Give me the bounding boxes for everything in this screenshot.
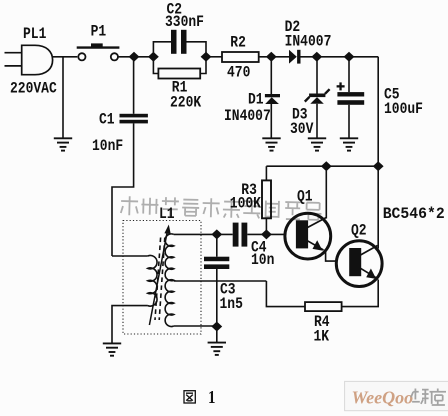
wire secondary top terminal xyxy=(174,233,217,235)
wire Q2 emitter down to R4 xyxy=(342,280,379,307)
switch P1 xyxy=(77,43,120,60)
ground (primary) xyxy=(103,343,121,355)
svg-text:1: 1 xyxy=(208,387,215,408)
capacitor C3 xyxy=(216,234,218,256)
svg-text:D1: D1 xyxy=(248,91,264,108)
label D2 xyxy=(285,19,301,36)
node H junction (Q1 collector feed) xyxy=(321,161,332,171)
svg-text:Q2: Q2 xyxy=(351,223,367,240)
resistor R1 (parallel with C2) xyxy=(153,57,206,74)
resistor R2 xyxy=(222,52,259,62)
svg-text:IN4007: IN4007 xyxy=(224,108,271,125)
resistor R4 xyxy=(305,302,342,311)
ground (D3) xyxy=(308,138,326,150)
node C junction (right of C2/R1) xyxy=(201,52,212,62)
svg-text:IN4007: IN4007 xyxy=(285,34,332,51)
node E junction xyxy=(311,52,322,62)
ground (C5) xyxy=(340,138,358,150)
wire switch to node A xyxy=(118,56,153,58)
label R3 xyxy=(241,182,257,199)
wire right side down from top rail xyxy=(377,57,379,249)
label 100K xyxy=(230,196,262,213)
wire plug to switch xyxy=(53,56,78,58)
wire C1 down to transformer primary xyxy=(112,123,134,256)
wire secondary bottom terminal xyxy=(174,325,217,327)
svg-text:470: 470 xyxy=(227,65,250,82)
svg-text:P1: P1 xyxy=(91,23,107,40)
node I junction (C3 top / C4 left) xyxy=(211,229,222,239)
label P1 xyxy=(91,23,107,40)
label R2 xyxy=(230,35,246,52)
svg-text:100uF: 100uF xyxy=(384,101,423,118)
svg-text:WeeQoo: WeeQoo xyxy=(352,388,414,408)
capacitor C5 xyxy=(348,57,350,92)
node D junction xyxy=(266,52,277,62)
label 30V xyxy=(290,121,314,138)
ground (plug) xyxy=(54,138,72,150)
label PL1 xyxy=(23,26,46,43)
caption 图 1 xyxy=(184,391,195,403)
label IN4007 (D1) xyxy=(224,108,271,125)
label D1 xyxy=(248,91,264,108)
node A junction xyxy=(129,52,140,62)
resistor R3 xyxy=(265,166,267,180)
wire node C to R2 xyxy=(206,56,222,58)
label 10nF xyxy=(92,138,123,155)
svg-text:1K: 1K xyxy=(314,328,330,345)
label L1 xyxy=(159,206,175,223)
plus sign (C5 polarity) xyxy=(337,82,345,90)
transistor Q1 xyxy=(285,213,331,259)
label IN4007 (D2) xyxy=(285,34,332,51)
svg-text:220K: 220K xyxy=(170,95,202,112)
transformer core dashed lines xyxy=(155,238,165,321)
label 100uF xyxy=(384,101,423,118)
svg-text:C1: C1 xyxy=(99,111,115,128)
label C4 xyxy=(251,239,267,256)
wire lower rail xyxy=(266,165,378,167)
wire secondary center tap xyxy=(174,280,267,282)
label R1 xyxy=(172,79,188,96)
svg-text:220VAC: 220VAC xyxy=(10,80,57,97)
dotted box L1 xyxy=(123,221,201,335)
label D3 xyxy=(292,107,308,124)
transformer secondary winding xyxy=(165,234,174,327)
wire node K to Q1 base xyxy=(266,233,285,235)
capacitor C1 xyxy=(120,114,148,124)
svg-text:L1: L1 xyxy=(159,206,175,223)
wire D2 to node E xyxy=(301,56,317,58)
svg-text:100K: 100K xyxy=(230,196,262,213)
label 1n5 xyxy=(220,296,243,313)
label 220K xyxy=(170,95,202,112)
node F junction xyxy=(344,52,355,62)
wire center tap down to R4 left xyxy=(266,281,305,307)
label 220VAC xyxy=(10,80,57,97)
svg-text:1n5: 1n5 xyxy=(220,296,243,313)
label C5 xyxy=(384,86,400,103)
node K junction (Q1 base / R3 bottom) xyxy=(261,229,272,239)
capacitor C4 xyxy=(217,233,233,235)
label R4 xyxy=(314,314,330,331)
svg-text:30V: 30V xyxy=(290,121,314,138)
label 1K xyxy=(314,328,330,345)
svg-text:330nF: 330nF xyxy=(165,14,204,31)
label BC546*2 xyxy=(383,206,445,223)
label C3 xyxy=(220,282,236,299)
node G junction (right rail) xyxy=(373,161,384,171)
label 470 xyxy=(227,65,250,82)
zener D3 xyxy=(316,57,318,94)
wire node F to right corner xyxy=(349,56,378,58)
svg-text:10nF: 10nF xyxy=(92,138,123,155)
wire node H down to Q1 collector xyxy=(325,166,327,218)
watermark WeeQoo box xyxy=(345,381,448,410)
diode D1 xyxy=(270,57,272,94)
plug PL1 xyxy=(5,45,53,74)
label 330nF xyxy=(165,14,204,31)
ground (secondary) xyxy=(208,343,226,355)
wire node E to node F xyxy=(317,56,349,58)
label C1 xyxy=(99,111,115,128)
label Q1 xyxy=(297,189,313,206)
node B junction (left of C2/R1) xyxy=(148,52,159,62)
wire R2 to node D xyxy=(259,56,289,58)
transistor Q2 xyxy=(336,241,382,287)
adjustable core arrow xyxy=(149,230,167,326)
wire down to ground from plug output xyxy=(62,57,64,138)
ground (D1) xyxy=(262,138,280,150)
label 10n xyxy=(251,252,274,269)
diode D2 xyxy=(289,50,297,64)
wire node A down to C1 xyxy=(133,57,135,114)
label Q2 xyxy=(351,223,367,240)
capacitor C2 branch xyxy=(153,42,206,57)
svg-text:PL1: PL1 xyxy=(23,26,46,43)
svg-text:10n: 10n xyxy=(251,252,274,269)
svg-text:R2: R2 xyxy=(230,35,246,52)
transformer primary winding xyxy=(112,255,157,342)
watermark company text xyxy=(121,196,322,220)
svg-text:BC546*2: BC546*2 xyxy=(383,206,445,223)
node J junction (secondary bottom) xyxy=(211,322,222,332)
wire Q1 emitter to Q2 base xyxy=(326,252,337,262)
svg-text:Q1: Q1 xyxy=(297,189,313,206)
label C2 xyxy=(167,2,183,19)
wire node J to ground xyxy=(216,327,218,343)
